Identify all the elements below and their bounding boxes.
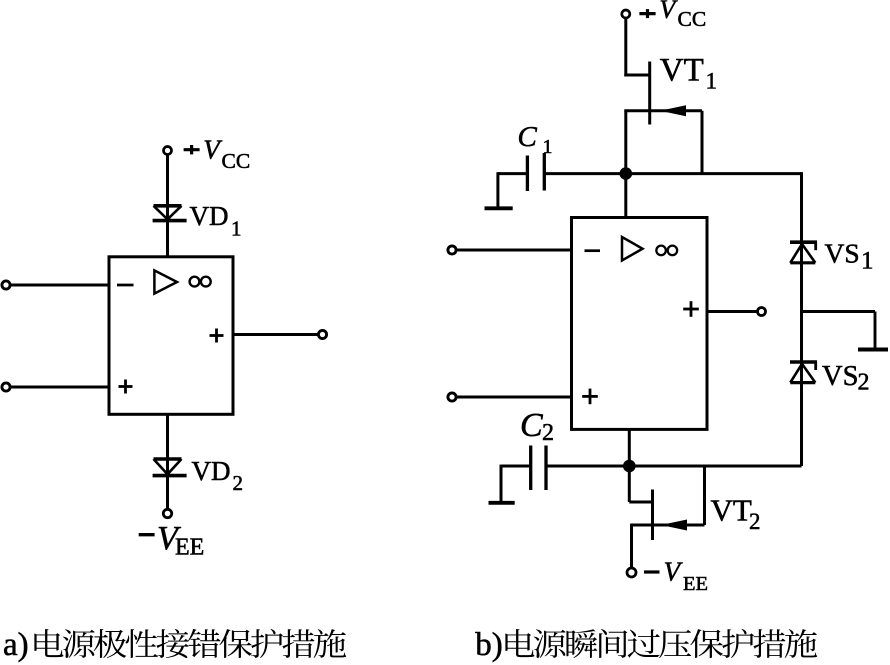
svg-text:1: 1 [861, 248, 874, 275]
svg-text:VD: VD [190, 201, 229, 231]
svg-text:CC: CC [222, 149, 251, 173]
svg-text:2: 2 [858, 370, 870, 396]
svg-text:C: C [518, 121, 538, 153]
svg-text:VT: VT [660, 52, 704, 88]
svg-text:VS: VS [822, 361, 858, 392]
svg-text:1: 1 [231, 217, 242, 241]
svg-text:CC: CC [678, 7, 707, 31]
svg-text:EE: EE [683, 573, 708, 595]
svg-text:2: 2 [233, 471, 244, 495]
svg-text:VD: VD [192, 456, 231, 486]
svg-text:b): b) [475, 627, 503, 663]
svg-text:C: C [520, 407, 543, 444]
svg-text:2: 2 [749, 509, 761, 534]
svg-text:VS: VS [825, 238, 860, 269]
svg-text:1: 1 [706, 69, 718, 94]
svg-text:2: 2 [542, 420, 554, 446]
svg-text:a): a) [3, 627, 29, 663]
svg-text:EE: EE [175, 535, 204, 561]
svg-text:VT: VT [711, 493, 752, 528]
svg-text:1: 1 [543, 136, 553, 158]
